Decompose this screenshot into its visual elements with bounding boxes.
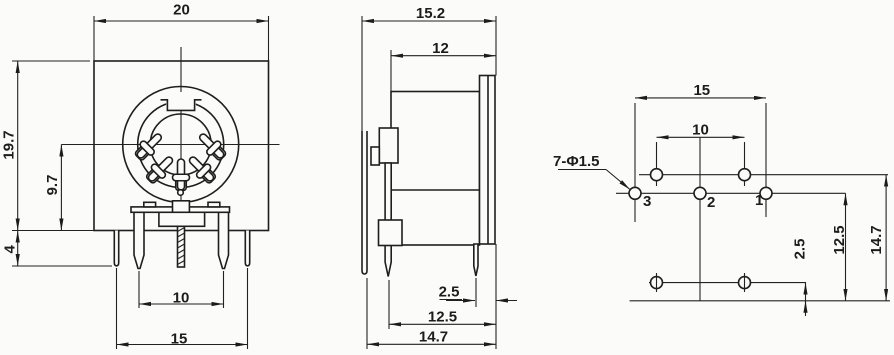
upper hole row line: [639, 174, 888, 176]
hole 1: [760, 187, 772, 199]
dimension 15 extension lines: [116, 268, 118, 349]
dimension 2.5 lower arrow (footprint): [805, 301, 807, 316]
dimension 10 line: [139, 303, 224, 305]
svg-text:10: 10: [173, 290, 190, 307]
right mounting leg with wedge tip: [219, 212, 229, 268]
dimension 12 line: [391, 55, 496, 57]
bracket lower box: [159, 212, 205, 226]
hole 1 tick: [765, 199, 767, 211]
bracket center tab: [173, 201, 190, 213]
svg-text:14.7: 14.7: [868, 225, 885, 254]
dimension 20 extension lines: [93, 16, 95, 61]
dimension 10 extension lines: [138, 271, 140, 308]
dimension 15 line (footprint): [635, 97, 766, 99]
dimension 10 line (footprint): [657, 136, 745, 138]
dimension 14.7 line: [367, 343, 496, 345]
hole upper-left tick: [656, 181, 658, 187]
center solder pin hatching: [178, 228, 185, 265]
dimension 10 extension lines: [656, 142, 658, 170]
hole lower-left tick: [656, 273, 658, 292]
right reference extension line upper: [495, 16, 497, 76]
rear step block: [379, 128, 398, 163]
hole lower-left: [651, 277, 663, 289]
outer shield circle: [123, 87, 239, 203]
svg-text:12: 12: [432, 40, 449, 57]
hole lower-right tick: [744, 273, 746, 292]
bracket block: [379, 220, 403, 246]
front mounting leg: [385, 163, 391, 277]
svg-text:2.5: 2.5: [439, 284, 460, 301]
dimension 12.5 extension line: [388, 280, 390, 329]
dimension 15 line: [117, 344, 248, 346]
bracket bar: [131, 207, 230, 212]
dimension 12.5 line: [389, 323, 496, 325]
front pin extension line: [475, 278, 477, 307]
svg-text:20: 20: [173, 2, 190, 19]
dimension 15.2 line: [362, 20, 496, 22]
contact pin UR: [195, 129, 229, 163]
svg-text:7-Φ1.5: 7-Φ1.5: [553, 153, 600, 170]
dimension 19.7 line: [17, 61, 19, 231]
side body outline: [391, 92, 480, 246]
rear pin extension line: [361, 16, 363, 131]
bottom hole row line: [649, 282, 806, 284]
shield rivet: [178, 190, 184, 196]
hole upper-right tick: [744, 181, 746, 187]
svg-text:15.2: 15.2: [416, 5, 445, 22]
front face plate: [480, 76, 496, 245]
svg-text:3: 3: [643, 193, 651, 210]
dimension 20 line: [94, 20, 269, 22]
right thin pin: [245, 231, 249, 266]
key notch mask: [166, 92, 196, 110]
front solder pin: [474, 244, 478, 276]
dimension 9.7 line: [60, 145, 62, 231]
svg-text:2: 2: [707, 194, 715, 211]
bracket right tab: [208, 202, 220, 207]
dimension 12.5 line (footprint): [845, 193, 847, 300]
contact pin LL: [143, 152, 177, 186]
front-view body outline: [94, 61, 269, 231]
dimension 15 extension lines: [634, 103, 636, 222]
svg-text:9.7: 9.7: [44, 175, 61, 196]
hole upper-right: [739, 169, 751, 181]
horizontal centerline: [61, 144, 279, 146]
svg-text:15: 15: [171, 331, 188, 348]
inner shield circle: [138, 102, 224, 188]
hole 2: [694, 187, 706, 199]
hole2 centerline: [699, 137, 701, 301]
svg-text:1: 1: [755, 192, 763, 209]
svg-text:4: 4: [2, 244, 19, 253]
dimension 4 line: [17, 231, 19, 267]
dimension 2.5 line (footprint): [805, 283, 807, 311]
right reference extension line lower: [495, 244, 497, 349]
center solder pin: [178, 226, 185, 267]
hole upper-left: [651, 169, 663, 181]
front plate inner line: [487, 76, 489, 245]
cavity bottom line: [391, 189, 480, 191]
board bottom line: [630, 300, 890, 302]
bracket left tab: [144, 202, 156, 207]
dimension 2.5 left arrow: [446, 300, 475, 302]
left thin pin: [114, 231, 118, 266]
rear small tab: [371, 147, 379, 165]
dimension 14.7 line (footprint): [885, 175, 887, 301]
leg tip extension line: [12, 265, 112, 267]
main hole row line: [616, 192, 846, 194]
body bottom extension line: [12, 230, 94, 232]
svg-text:10: 10: [692, 122, 709, 139]
vertical centerline: [180, 47, 182, 234]
dimension 12 extension line: [390, 50, 392, 92]
svg-text:15: 15: [693, 82, 710, 99]
key notch outline: [161, 100, 202, 111]
svg-text:12.5: 12.5: [428, 308, 457, 325]
contact pin LR: [185, 152, 219, 186]
dimension 14.7 extension line: [366, 278, 368, 349]
contact pin bottom: [173, 159, 190, 191]
svg-text:19.7: 19.7: [1, 130, 18, 159]
body top extension line: [12, 60, 90, 62]
hole 3: [629, 187, 641, 199]
hole callout underline: [558, 169, 606, 171]
svg-text:2.5: 2.5: [792, 239, 809, 260]
svg-text:14.7: 14.7: [419, 328, 448, 345]
hole callout leader arrow: [606, 170, 630, 190]
dimension 2.5 right arrow: [496, 300, 517, 302]
hole lower-right: [739, 277, 751, 289]
pin boss circle: [150, 114, 211, 175]
left mounting leg with wedge tip: [134, 212, 144, 268]
svg-text:12.5: 12.5: [831, 225, 848, 254]
contact pin UL: [132, 129, 166, 163]
rear mounting pin: [362, 131, 367, 274]
dimension 2.5 underline: [440, 299, 463, 301]
